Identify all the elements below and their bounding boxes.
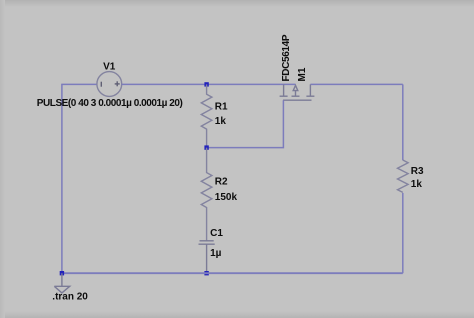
transistor M1 pmos symbol bbox=[280, 84, 315, 100]
voltage source V1 bbox=[97, 72, 122, 97]
svg-text:M1: M1 bbox=[297, 67, 308, 81]
node R1 top junction bbox=[204, 82, 208, 86]
wire top middle segment bbox=[122, 83, 296, 85]
svg-text:150k: 150k bbox=[215, 192, 238, 203]
svg-text:1k: 1k bbox=[215, 116, 227, 127]
svg-text:R2: R2 bbox=[215, 176, 228, 187]
svg-text:V1: V1 bbox=[103, 62, 116, 73]
capacitor C1 bbox=[199, 241, 215, 273]
resistor R3 bbox=[398, 160, 409, 192]
wire bottom rail bbox=[62, 272, 403, 274]
node C1 bottom junction bbox=[204, 271, 208, 275]
svg-text:R3: R3 bbox=[411, 166, 424, 177]
resistor R1 bbox=[201, 84, 212, 147]
wire right rail lower bbox=[402, 193, 404, 273]
wire left rail bbox=[61, 84, 63, 273]
wire top right segment bbox=[310, 83, 402, 85]
wire gate to node bbox=[207, 100, 284, 147]
svg-text:1k: 1k bbox=[411, 179, 423, 190]
svg-text:C1: C1 bbox=[210, 228, 223, 239]
node gate junction bbox=[204, 145, 208, 149]
ground bbox=[54, 273, 69, 293]
svg-text:1µ: 1µ bbox=[210, 248, 222, 259]
svg-text:FDC5614P: FDC5614P bbox=[281, 34, 292, 81]
resistor R2 bbox=[201, 148, 212, 241]
node ground junction bbox=[60, 271, 64, 275]
svg-text:.tran 20: .tran 20 bbox=[52, 292, 88, 303]
wire right rail upper bbox=[402, 84, 404, 160]
svg-text:R1: R1 bbox=[215, 101, 228, 112]
wire top left segment bbox=[61, 83, 97, 85]
svg-text:PULSE(0 40 3 0.0001µ 0.0001µ 2: PULSE(0 40 3 0.0001µ 0.0001µ 20) bbox=[37, 98, 183, 109]
